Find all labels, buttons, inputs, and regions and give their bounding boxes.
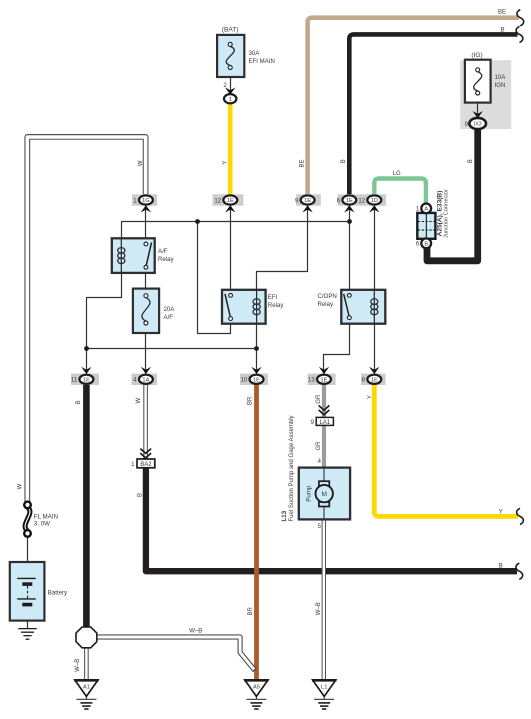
svg-text:20A: 20A (164, 306, 176, 313)
svg-text:W–B: W–B (189, 628, 202, 634)
wire IGN fuse to IX3 (477, 103, 479, 119)
svg-text:L13: L13 (281, 510, 288, 521)
svg-text:A: A (424, 207, 428, 213)
wire Y fuse to 12(1E) (228, 102, 233, 194)
svg-text:Y: Y (368, 395, 374, 399)
battery (10, 562, 45, 621)
svg-text:B: B (468, 159, 474, 163)
svg-text:B: B (341, 159, 347, 163)
wire Y from 8(1E) down and right (break at edge) (374, 385, 518, 517)
break symbol B right edge (516, 26, 523, 42)
wire W from 4(1A) to BA2 (143, 385, 148, 460)
wire B top horizontal+vertical (349, 34, 517, 194)
pump assembly L13 box (299, 468, 350, 520)
wire pump internal (323, 468, 325, 482)
svg-text:1E: 1E (253, 377, 260, 383)
svg-text:Pump: Pump (305, 485, 312, 502)
svg-text:(BAT): (BAT) (222, 27, 239, 34)
wire 6(1E) to C/OPN contact (349, 206, 351, 296)
wire BR from 10(1E) to ground A5 (254, 385, 259, 688)
junction connector A25(A),E33(B) grid (417, 213, 435, 239)
connector 9 LA1 (316, 417, 333, 425)
svg-text:1E: 1E (227, 198, 234, 204)
svg-text:Y: Y (222, 161, 228, 165)
svg-text:EFI MAIN: EFI MAIN (249, 58, 275, 65)
svg-text:A/F: A/F (158, 248, 168, 255)
junction dot bus1-EFI (195, 219, 200, 224)
svg-text:B: B (499, 564, 503, 570)
wire 1G to A/F relay contact (145, 206, 147, 245)
svg-text:Fuel Suction Pump and Gage Ass: Fuel Suction Pump and Gage Assembly (289, 415, 295, 521)
wire BE horizontal+vertical (battery feed) (308, 18, 519, 194)
svg-text:A1: A1 (83, 684, 90, 690)
svg-text:A5: A5 (253, 684, 260, 690)
wire 9(1E) to EFI coil (257, 206, 308, 291)
svg-text:Battery: Battery (48, 590, 68, 597)
wire W-B from octagon to ground A5 (joins BR) (96, 637, 255, 671)
svg-text:(IG): (IG) (471, 52, 482, 59)
svg-text:Relay: Relay (268, 302, 285, 309)
svg-text:Junction Connector: Junction Connector (444, 189, 450, 238)
svg-text:1A: 1A (142, 377, 149, 383)
connector 10 1E (240, 374, 268, 385)
svg-text:30A: 30A (249, 50, 261, 57)
relay C/OPN Relay (341, 290, 385, 324)
wire 20A fuse to 4(1A) (145, 323, 147, 374)
svg-text:BE: BE (498, 10, 506, 16)
wire LG junction connector loop (374, 179, 426, 206)
wire W-B from octagon to ground A1 (84, 647, 89, 681)
battery ground (18, 628, 37, 630)
svg-text:FL MAIN: FL MAIN (34, 513, 58, 520)
wire GR from LA1 to pump pin 4 (322, 425, 326, 467)
connector 6 1E (black) (338, 194, 362, 205)
svg-text:1: 1 (131, 462, 135, 468)
svg-text:BR: BR (248, 606, 254, 615)
junction dot bus2 left (84, 346, 89, 351)
connector oval 1 below EFI MAIN fuse (224, 94, 236, 103)
connector 12 1D (green) (361, 194, 386, 205)
connector 13 1E (308, 374, 336, 385)
fuse 20A A/F (133, 289, 159, 333)
wire W left: FL MAIN up and over to 1G (27, 137, 145, 503)
connector 9 IX3 (469, 118, 486, 129)
wire 12(1D) to C/OPN coil (374, 206, 376, 291)
svg-text:10A: 10A (495, 74, 507, 81)
svg-text:IGN: IGN (495, 82, 506, 89)
svg-text:M: M (321, 491, 327, 498)
svg-text:W: W (136, 398, 142, 404)
chevrons on W wire (140, 449, 151, 454)
junction connector pin B (421, 238, 431, 248)
svg-text:12: 12 (358, 198, 365, 204)
ground A1 (75, 680, 98, 696)
svg-text:Relay: Relay (158, 256, 175, 263)
ground L1 (313, 680, 336, 696)
wire GR from 13(1E) to LA1 (322, 385, 326, 419)
svg-text:12: 12 (214, 198, 221, 204)
wire C/OPN coil bottom to 8(1E) (374, 315, 376, 374)
svg-text:11: 11 (71, 378, 78, 384)
svg-text:1G: 1G (142, 198, 150, 204)
svg-text:6: 6 (416, 242, 420, 248)
bus y=348.5 (87, 348, 257, 350)
svg-text:GR: GR (316, 441, 322, 451)
ground A5 (245, 680, 268, 696)
connector 8 1E (361, 374, 386, 385)
wire fuse EFI MAIN to oval 1 (230, 77, 232, 95)
svg-text:W–B: W–B (316, 602, 322, 615)
relay A/F Relay (112, 238, 155, 273)
svg-text:LA1: LA1 (319, 420, 330, 426)
svg-text:Y: Y (499, 509, 503, 515)
wire bus2 to 11(1E) (86, 349, 88, 374)
svg-text:W: W (138, 160, 144, 166)
svg-text:5: 5 (318, 524, 322, 530)
svg-text:A/F: A/F (164, 314, 174, 321)
chevrons on GR wire (319, 405, 330, 410)
svg-text:1E: 1E (371, 377, 378, 383)
fusible link FL MAIN 3.0W (25, 508, 30, 531)
svg-text:1D: 1D (371, 198, 378, 204)
svg-text:LG: LG (393, 171, 401, 177)
wire B thick from BA2 down and right (break at edge) (146, 468, 517, 572)
svg-text:B: B (424, 242, 428, 248)
svg-text:W: W (18, 483, 24, 489)
connector 12 1E (yellow) (213, 194, 244, 205)
connector 4 1A (132, 374, 158, 385)
svg-text:L1: L1 (321, 684, 327, 690)
bus y=222 A/F coil to C/OPN contact (122, 222, 350, 239)
junction connector pin A (421, 204, 431, 214)
svg-text:1E: 1E (83, 377, 90, 383)
svg-text:B: B (76, 400, 82, 404)
wire battery to ground (27, 606, 29, 628)
wire B thick from 11(1E) to octagon (83, 385, 90, 628)
connector 1 1G (132, 194, 157, 205)
connector 1 BA2 (137, 459, 155, 468)
wire EFI coil bottom to 10(1E) (256, 315, 258, 374)
connector 9 1E (beige) (296, 194, 321, 205)
wire A/F coil bottom to bus2 (87, 273, 122, 349)
svg-text:BA2: BA2 (140, 462, 152, 468)
wire FL MAIN to battery (27, 537, 29, 579)
svg-text:B: B (137, 493, 143, 497)
svg-text:9: 9 (311, 420, 315, 426)
connector 11 1E (71, 374, 99, 385)
fuse 10A IGN (IG) (465, 60, 491, 103)
wire A/F relay contact to 20A fuse (145, 267, 147, 295)
svg-text:EFI: EFI (268, 294, 278, 301)
junction dot bus2 right (254, 346, 259, 351)
wire W-B from pump pin 5 to ground L1 (322, 520, 326, 681)
svg-text:1E: 1E (346, 198, 353, 204)
svg-text:3. 0W: 3. 0W (34, 520, 50, 527)
break symbol Y right edge (517, 508, 524, 524)
wire EFI contact bottom jog to bus dot (198, 222, 231, 334)
svg-text:4: 4 (318, 459, 322, 465)
svg-text:IX3: IX3 (474, 122, 482, 128)
svg-text:B: B (500, 28, 504, 34)
svg-text:1: 1 (229, 97, 232, 103)
octagon junction battery negative (76, 627, 97, 648)
svg-text:GR: GR (316, 394, 322, 404)
svg-text:C/OPN: C/OPN (318, 293, 337, 300)
svg-text:BR: BR (248, 396, 254, 405)
svg-text:Relay: Relay (318, 301, 335, 308)
svg-text:13: 13 (308, 378, 315, 384)
pump motor M (319, 481, 329, 486)
svg-text:1E: 1E (321, 377, 328, 383)
junction dot bus1-C/OPN (347, 219, 352, 224)
wire C/OPN contact bottom jog to 13(1E) (324, 318, 350, 374)
fuse 30A EFI MAIN (BAT) (217, 35, 244, 77)
IG fuse gray panel (460, 60, 511, 129)
wire 12(1E) to EFI contact (230, 206, 232, 296)
svg-text:2: 2 (223, 83, 227, 89)
svg-text:W–B: W–B (75, 659, 81, 672)
svg-text:1E: 1E (304, 198, 311, 204)
svg-text:A25(A), E33(B): A25(A), E33(B) (436, 191, 443, 237)
svg-text:10: 10 (241, 378, 248, 384)
break symbol BE right edge (517, 10, 524, 26)
break symbol B bottom right edge (516, 563, 523, 579)
relay EFI Relay (222, 290, 266, 324)
wire B thick from IX3 down-left to junction connector B (427, 128, 478, 261)
svg-text:BE: BE (299, 159, 305, 167)
